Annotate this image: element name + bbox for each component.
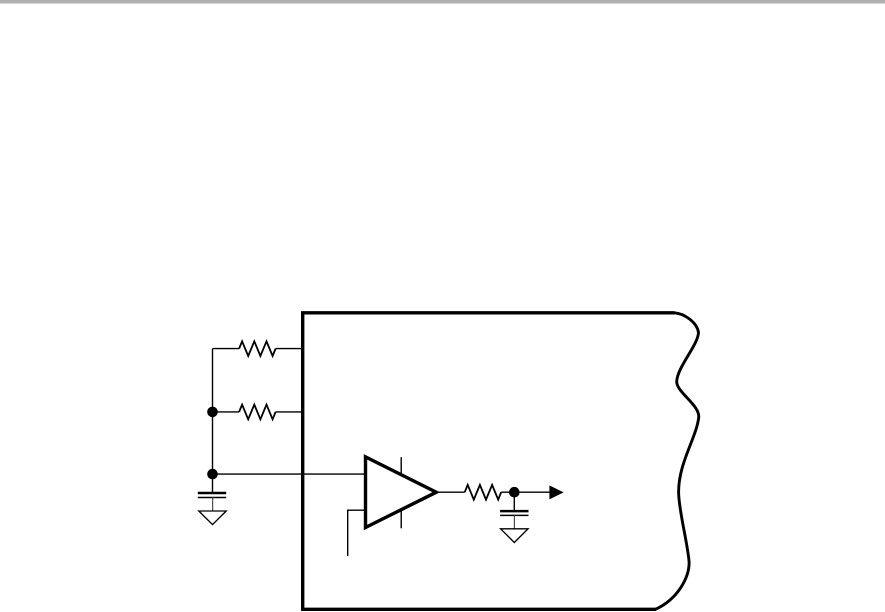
capacitor C2 top plate	[500, 510, 528, 513]
wire: C2 to ground	[513, 515, 515, 528]
resistor R2	[239, 405, 276, 420]
wire: noninverting input	[213, 473, 366, 475]
IC boundary box	[303, 313, 699, 610]
wire: op-amp output	[436, 491, 464, 493]
op-amp positive supply pin	[400, 457, 402, 475]
wire: R1 right lead	[276, 348, 302, 350]
node junction dot upper	[207, 407, 218, 418]
wire: output node	[501, 491, 550, 493]
page top rule	[0, 0, 885, 4]
node junction dot lower	[207, 469, 218, 480]
node junction dot output	[509, 487, 520, 498]
box outline (top, left, bottom edges)	[303, 313, 675, 610]
capacitor C1 top plate	[198, 492, 226, 495]
resistor R1	[239, 341, 276, 356]
torn-edge squiggle	[656, 313, 699, 610]
ground symbol left	[199, 511, 226, 525]
output arrow	[549, 485, 563, 499]
wire: C1 to ground	[212, 498, 214, 511]
wire: R2 right lead	[276, 411, 302, 413]
capacitor C2 bottom plate	[500, 514, 528, 516]
ground symbol right	[501, 529, 528, 543]
op-amp negative supply pin	[400, 510, 402, 528]
wire: node to C2	[513, 492, 515, 511]
wire: R2 left lead	[213, 411, 240, 413]
wire: inverting input feedback stub	[348, 510, 366, 556]
capacitor C1 bottom plate	[198, 497, 226, 499]
op-amp U1	[366, 457, 437, 528]
resistor R3	[465, 485, 502, 500]
wire: top-left vertical bus	[212, 349, 214, 492]
wire: R1 left lead	[213, 348, 240, 350]
